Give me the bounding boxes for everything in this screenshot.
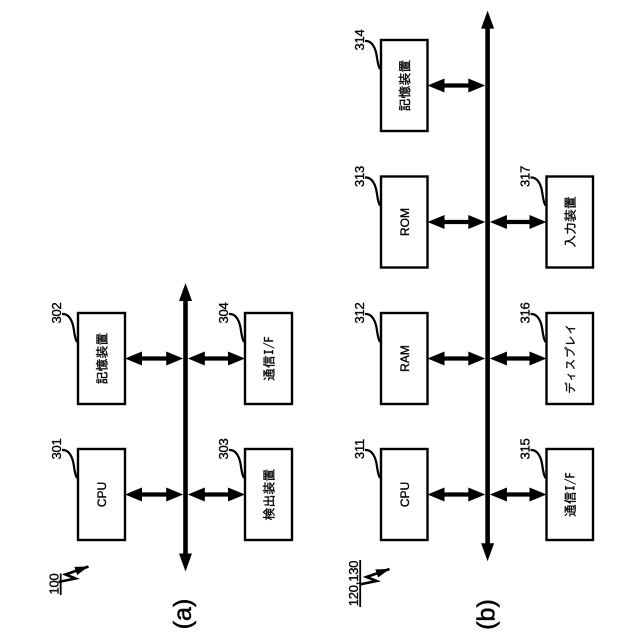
svg-text:302: 302 xyxy=(49,302,64,323)
svg-text:303: 303 xyxy=(216,438,231,459)
svg-text:(a): (a) xyxy=(169,599,197,630)
svg-text:ROM: ROM xyxy=(398,208,412,236)
svg-text:317: 317 xyxy=(518,166,533,187)
svg-text:301: 301 xyxy=(49,438,64,459)
svg-text:311: 311 xyxy=(352,439,367,459)
svg-text:CPU: CPU xyxy=(398,482,412,507)
svg-text:316: 316 xyxy=(518,302,533,323)
svg-text:304: 304 xyxy=(216,302,231,323)
svg-text:RAM: RAM xyxy=(398,345,412,372)
svg-text:315: 315 xyxy=(518,438,533,459)
svg-text:CPU: CPU xyxy=(95,482,109,507)
svg-text:100: 100 xyxy=(47,573,62,594)
svg-text:312: 312 xyxy=(352,302,367,323)
svg-text:313: 313 xyxy=(352,166,367,187)
svg-text:(b): (b) xyxy=(473,599,501,630)
svg-text:314: 314 xyxy=(352,29,367,50)
svg-text:120,130: 120,130 xyxy=(346,561,361,607)
